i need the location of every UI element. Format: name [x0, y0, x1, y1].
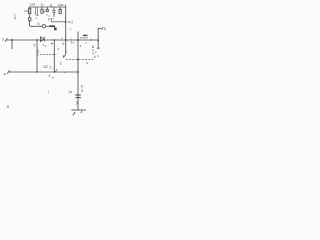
svg-text:-2: -2 [70, 21, 73, 25]
svg-text:7: 7 [45, 44, 47, 48]
svg-text:4: 4 [14, 17, 16, 21]
svg-text:5: 5 [104, 27, 106, 31]
svg-text:1SR: 1SR [30, 3, 37, 7]
svg-text:/: / [48, 91, 49, 95]
svg-text:6: 6 [38, 22, 40, 26]
svg-text:1s: 1s [69, 90, 73, 94]
svg-text:N2: N2 [44, 65, 49, 69]
svg-text:-2: -2 [59, 62, 62, 66]
svg-text:4SR: 4SR [58, 3, 65, 7]
svg-text:3: 3 [2, 38, 4, 42]
svg-text:6: 6 [94, 55, 96, 59]
svg-text:g: g [76, 101, 78, 105]
svg-text:b: b [81, 85, 83, 89]
svg-text:3: 3 [49, 74, 51, 78]
svg-text:1s: 1s [24, 9, 28, 13]
svg-text:4: 4 [86, 62, 88, 66]
svg-text:2: 2 [50, 66, 52, 70]
svg-text:5: 5 [81, 89, 83, 93]
svg-text:9: 9 [48, 17, 50, 21]
svg-text:7: 7 [70, 28, 72, 32]
svg-text:2s: 2s [41, 3, 45, 7]
svg-text:5: 5 [33, 44, 35, 48]
svg-text:t: t [66, 50, 67, 54]
